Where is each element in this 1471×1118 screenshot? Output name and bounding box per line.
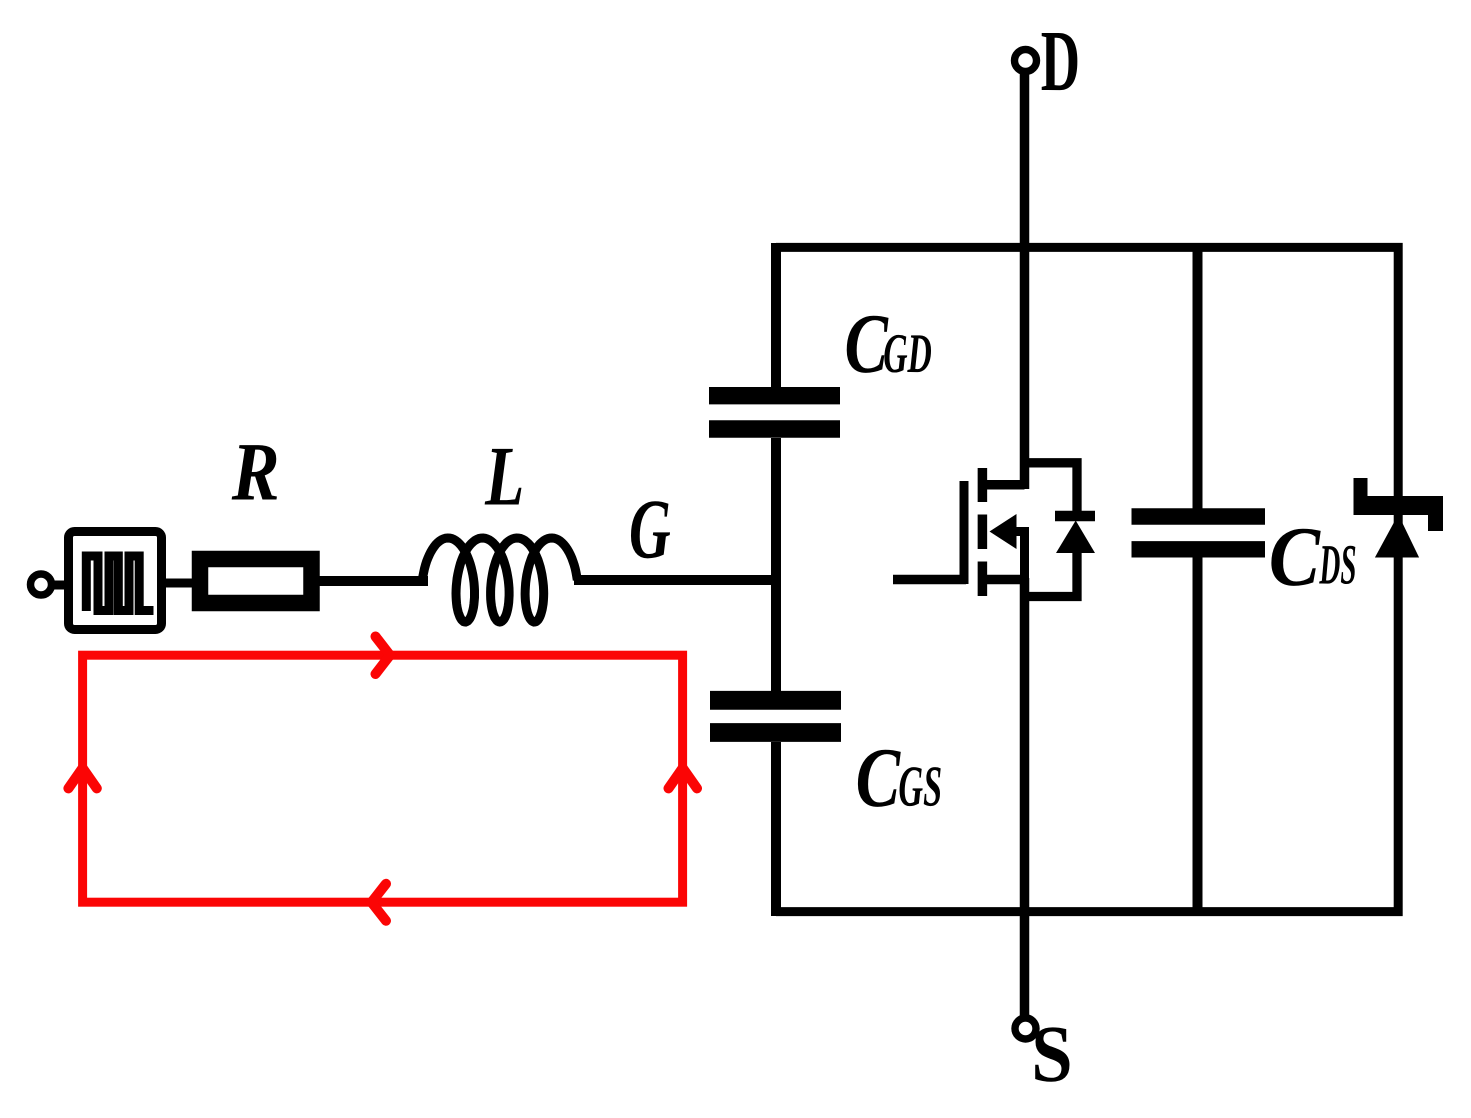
capacitor CDS branch wire top bbox=[1193, 243, 1203, 510]
Q1 channel segment middle bbox=[978, 515, 988, 550]
Q1 source lead bbox=[982, 575, 1024, 585]
svg-text:R: R bbox=[231, 426, 280, 518]
zener body diode bar down-stub bbox=[1428, 512, 1443, 531]
body diode cathode bar bbox=[1055, 511, 1095, 522]
svg-text:C: C bbox=[845, 297, 889, 391]
loop arrow left (upward) bbox=[68, 768, 96, 788]
zener body diode triangle bbox=[1375, 515, 1419, 558]
D terminal bbox=[1015, 50, 1037, 72]
zener body diode cathode bar bbox=[1354, 496, 1444, 515]
svg-text:S: S bbox=[1031, 1009, 1072, 1099]
capacitor CGD bbox=[709, 387, 840, 404]
Q1 channel segment top bbox=[978, 468, 988, 502]
wire drain bbox=[1020, 71, 1030, 489]
node G branch vertical (gate side of CGD/CGS) bbox=[771, 243, 781, 388]
Q1 body lead bbox=[1014, 532, 1025, 579]
wire source bbox=[1020, 578, 1030, 1019]
Q1 channel segment bottom bbox=[978, 562, 988, 597]
Q1 drain lead bbox=[982, 480, 1024, 490]
capacitor CGS bbox=[710, 691, 841, 710]
input terminal bbox=[31, 574, 52, 595]
wire bbox=[54, 581, 70, 590]
wire bbox=[161, 579, 196, 588]
zener body diode bar up-stub bbox=[1354, 478, 1368, 500]
S terminal bbox=[1015, 1018, 1036, 1039]
device outline box bbox=[776, 247, 1398, 911]
wire bbox=[317, 576, 428, 586]
red commutation loop bbox=[68, 637, 697, 921]
junction drain to body diode bbox=[1025, 463, 1078, 512]
body diode triangle bbox=[1056, 521, 1095, 554]
svg-text:DS: DS bbox=[1319, 534, 1357, 597]
loop arrow top (rightward) bbox=[376, 637, 391, 675]
svg-text:D: D bbox=[1041, 12, 1080, 109]
Q1 gate bar bbox=[960, 481, 969, 584]
inductor L bbox=[422, 538, 577, 622]
square wave symbol bbox=[86, 556, 153, 611]
svg-text:C: C bbox=[1269, 510, 1321, 604]
Q1 body arrow bbox=[990, 514, 1017, 549]
loop arrow bottom (leftward) bbox=[372, 884, 387, 921]
svg-text:G: G bbox=[629, 483, 671, 577]
svg-text:C: C bbox=[856, 731, 902, 825]
resistor R bbox=[200, 559, 312, 603]
junction source to body diode bbox=[1025, 552, 1078, 597]
loop arrow right (upward) bbox=[669, 768, 698, 788]
transistor Q1 gate lead bbox=[893, 575, 966, 585]
pulse source V1 bbox=[69, 532, 162, 630]
wire node G bbox=[574, 575, 781, 585]
capacitor CDS plates bbox=[1132, 508, 1266, 524]
svg-text:GS: GS bbox=[898, 753, 942, 818]
svg-text:GD: GD bbox=[883, 323, 932, 385]
svg-text:L: L bbox=[484, 429, 524, 523]
capacitor CDS branch wire bottom bbox=[1193, 555, 1203, 916]
